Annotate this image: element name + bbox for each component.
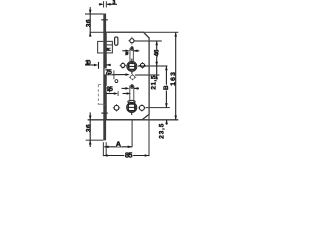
svg-text:3: 3 — [112, 0, 115, 6]
svg-text:85: 85 — [125, 151, 133, 160]
svg-text:9,5: 9,5 — [106, 86, 113, 93]
svg-text:23,5: 23,5 — [158, 123, 165, 138]
svg-text:21,5: 21,5 — [151, 75, 158, 89]
svg-text:163: 163 — [170, 72, 177, 86]
svg-text:7,5: 7,5 — [105, 69, 112, 76]
svg-text:A: A — [116, 139, 122, 148]
svg-text:36: 36 — [86, 19, 93, 27]
svg-text:10: 10 — [85, 59, 91, 66]
svg-text:46: 46 — [153, 49, 160, 56]
svg-text:36: 36 — [86, 124, 93, 132]
